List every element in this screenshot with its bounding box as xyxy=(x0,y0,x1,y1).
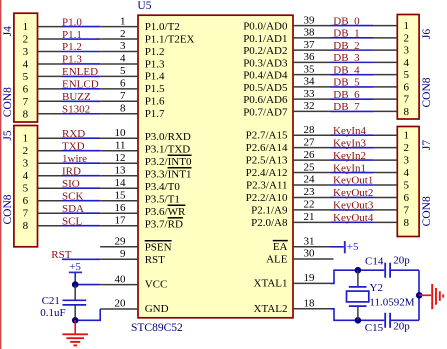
svg-text:P0.0/AD0: P0.0/AD0 xyxy=(243,21,288,33)
wire net KeyOut1 xyxy=(331,184,374,186)
net label RST xyxy=(51,249,71,261)
capacitor C15 plates xyxy=(385,313,390,328)
U5 pin 38 (P0.1/AD1) xyxy=(243,27,330,45)
net label KeyOut3 xyxy=(333,200,374,212)
wire net SCL xyxy=(62,225,100,227)
svg-text:32: 32 xyxy=(304,100,315,112)
svg-text:2: 2 xyxy=(23,145,29,157)
U5 pin 34 (P0.5/AD5) xyxy=(243,76,330,94)
ground (right, rotated) xyxy=(432,284,443,309)
svg-text:CON8: CON8 xyxy=(2,87,14,117)
wire net 1wire xyxy=(62,162,100,164)
U5 pin 27 (P2.6/A14) xyxy=(246,136,331,154)
svg-text:P2.5/A13: P2.5/A13 xyxy=(246,155,288,167)
svg-text:P1.7: P1.7 xyxy=(145,108,165,120)
svg-text:DB_4: DB_4 xyxy=(333,64,360,76)
svg-text:P0.5/AD5: P0.5/AD5 xyxy=(243,82,288,94)
net label DB_7 xyxy=(333,101,360,113)
U5 pin 5 (P1.4) xyxy=(100,65,165,83)
svg-text:16: 16 xyxy=(115,202,127,214)
svg-text:33: 33 xyxy=(304,88,316,100)
U5 pin 18 (XTAL2) xyxy=(254,298,331,315)
svg-text:1: 1 xyxy=(120,15,126,27)
svg-text:ENLED: ENLED xyxy=(62,66,98,78)
svg-text:29: 29 xyxy=(115,236,127,248)
svg-text:RST: RST xyxy=(51,249,71,261)
svg-text:P2.6/A14: P2.6/A14 xyxy=(246,142,288,154)
value CON8 (J5) xyxy=(2,194,14,224)
svg-text:11.0592M: 11.0592M xyxy=(369,297,414,309)
U5 pin 8 (P1.7) xyxy=(100,102,165,120)
svg-text:2: 2 xyxy=(404,142,410,154)
net label TXD xyxy=(62,140,85,152)
svg-text:21: 21 xyxy=(304,211,315,223)
U5 pin 2 (P1.1/T2EX) xyxy=(100,28,194,46)
svg-text:6: 6 xyxy=(23,195,29,207)
svg-text:3: 3 xyxy=(404,45,410,57)
U5 pin 12 (P3.2/INT0) xyxy=(100,152,192,168)
svg-text:STC89C52: STC89C52 xyxy=(131,322,183,334)
svg-text:20: 20 xyxy=(115,298,127,310)
svg-text:P0.4/AD4: P0.4/AD4 xyxy=(243,70,288,82)
U5 pin 31 (EA) xyxy=(273,236,331,254)
svg-text:6: 6 xyxy=(404,192,410,204)
wire XTAL2 to bottom rail xyxy=(331,309,385,321)
U5 pin 15 (P3.5/T1) xyxy=(100,189,180,205)
wire net ENLED xyxy=(62,75,100,77)
svg-text:4: 4 xyxy=(404,57,410,69)
crystal Y2 pins xyxy=(357,270,359,320)
svg-text:P1.3: P1.3 xyxy=(145,58,165,70)
svg-text:10: 10 xyxy=(115,127,127,139)
svg-text:2: 2 xyxy=(120,28,126,40)
svg-text:RST: RST xyxy=(145,254,165,266)
net label SCL xyxy=(62,215,82,227)
svg-text:7: 7 xyxy=(404,94,410,106)
wire net KeyIn2 xyxy=(331,159,374,161)
U5 pin 40 (VCC) xyxy=(100,273,167,290)
svg-text:XTAL2: XTAL2 xyxy=(254,303,288,315)
svg-text:P1.6: P1.6 xyxy=(145,96,165,108)
ground (left) xyxy=(62,320,88,345)
svg-text:RXD: RXD xyxy=(62,128,85,140)
value 20p (C14) xyxy=(393,255,410,267)
svg-text:P3.4/T0: P3.4/T0 xyxy=(145,181,181,193)
junction crystal bottom xyxy=(355,317,362,324)
junction +5/VCC/C21 xyxy=(72,281,79,288)
net label P1.2 xyxy=(62,41,82,53)
svg-text:P2.1/A9: P2.1/A9 xyxy=(251,204,288,216)
svg-text:P0.2/AD2: P0.2/AD2 xyxy=(243,45,287,57)
U5 pin 23 (P2.2/A10) xyxy=(246,186,331,204)
U5 pin 13 (P3.3/INT1) xyxy=(100,164,191,180)
svg-text:1: 1 xyxy=(23,133,29,145)
wire net DB_0 xyxy=(331,25,374,27)
svg-text:DB_3: DB_3 xyxy=(333,52,360,64)
svg-text:KeyOut3: KeyOut3 xyxy=(333,200,374,212)
svg-text:20p: 20p xyxy=(393,255,410,267)
svg-text:VCC: VCC xyxy=(145,279,168,291)
svg-text:2: 2 xyxy=(404,32,410,44)
net label IRD xyxy=(62,165,81,177)
svg-text:34: 34 xyxy=(304,76,316,88)
svg-text:CON8: CON8 xyxy=(421,77,433,107)
net label S1302 xyxy=(62,103,90,115)
svg-text:P3.6/WR: P3.6/WR xyxy=(145,206,186,218)
svg-text:8: 8 xyxy=(23,220,29,232)
svg-text:P2.2/A10: P2.2/A10 xyxy=(246,192,288,204)
svg-text:4: 4 xyxy=(404,167,410,179)
wire net SDA xyxy=(62,212,100,214)
svg-text:BUZZ: BUZZ xyxy=(62,91,91,103)
svg-text:20p: 20p xyxy=(393,320,410,332)
svg-text:S1302: S1302 xyxy=(62,103,90,115)
U5 pin 11 (P3.1/TXD) xyxy=(100,139,190,155)
svg-text:37: 37 xyxy=(304,39,316,51)
wire net KeyIn3 xyxy=(331,147,374,149)
U5 pin 29 (PSEN) xyxy=(100,236,171,254)
net label KeyOut4 xyxy=(333,212,374,224)
svg-text:P1.0: P1.0 xyxy=(62,16,82,28)
svg-text:8: 8 xyxy=(23,108,29,120)
U5 pin 14 (P3.4/T0) xyxy=(100,177,180,193)
svg-text:19: 19 xyxy=(304,272,316,284)
svg-text:IRD: IRD xyxy=(62,165,81,177)
designator Y2 xyxy=(370,282,383,294)
power +5 (EA) xyxy=(345,241,359,253)
svg-text:KeyIn4: KeyIn4 xyxy=(333,125,366,137)
wire net KeyOut4 xyxy=(331,221,374,223)
label J4 xyxy=(2,26,14,36)
svg-text:36: 36 xyxy=(304,51,316,63)
label J6 xyxy=(421,29,433,39)
svg-text:P1.2: P1.2 xyxy=(145,46,165,58)
wire net P1.3 xyxy=(62,63,100,65)
U5 pin 22 (P2.1/A9) xyxy=(251,199,330,217)
svg-text:13: 13 xyxy=(115,164,127,176)
svg-text:Y2: Y2 xyxy=(370,282,383,294)
svg-text:U5: U5 xyxy=(137,0,151,12)
svg-text:27: 27 xyxy=(304,136,316,148)
value CON8 (J7) xyxy=(421,196,433,226)
svg-text:6: 6 xyxy=(404,81,410,93)
svg-text:7: 7 xyxy=(23,208,29,220)
U5 pin 35 (P0.4/AD4) xyxy=(243,63,330,81)
wire net SCK xyxy=(62,200,100,202)
wire net DB_1 xyxy=(331,37,374,39)
svg-text:CON8: CON8 xyxy=(421,196,433,226)
svg-text:P3.1/TXD: P3.1/TXD xyxy=(145,143,191,155)
svg-text:30: 30 xyxy=(304,248,316,260)
U5 pin 19 (XTAL1) xyxy=(254,272,331,289)
U5 pin 39 (P0.0/AD0) xyxy=(243,14,330,32)
svg-text:40: 40 xyxy=(115,273,127,285)
net label P1.1 xyxy=(62,29,82,41)
svg-text:3: 3 xyxy=(23,46,29,58)
svg-text:23: 23 xyxy=(304,186,316,198)
U5 pin 36 (P0.3/AD3) xyxy=(243,51,330,69)
net label ENLCD xyxy=(62,79,99,91)
svg-text:7: 7 xyxy=(23,96,29,108)
designator U5 xyxy=(137,0,151,12)
U5 pin 17 (P3.7/RD) xyxy=(100,214,183,230)
svg-text:22: 22 xyxy=(304,199,315,211)
capacitor C14 plates xyxy=(385,263,390,278)
svg-text:5: 5 xyxy=(404,69,410,81)
wire net P1.0 xyxy=(62,26,100,28)
net label KeyIn1 xyxy=(333,162,366,174)
svg-text:J4: J4 xyxy=(2,26,14,36)
svg-text:P1.2: P1.2 xyxy=(62,41,82,53)
svg-text:38: 38 xyxy=(304,27,316,39)
svg-text:0.1uF: 0.1uF xyxy=(40,307,65,319)
U5 pin 24 (P2.3/A11) xyxy=(246,174,330,192)
U5 pin 32 (P0.7/AD7) xyxy=(243,100,330,118)
connector J4 (CON8) xyxy=(14,13,62,122)
svg-text:SCL: SCL xyxy=(62,215,82,227)
svg-text:9: 9 xyxy=(120,248,126,260)
U5 pin 33 (P0.6/AD6) xyxy=(243,88,330,106)
U5 pin 3 (P1.2) xyxy=(100,40,164,58)
U5 pin 25 (P2.4/A12) xyxy=(246,161,331,179)
value 0.1uF xyxy=(40,307,65,319)
svg-text:P0.3/AD3: P0.3/AD3 xyxy=(243,57,288,69)
wire net DB_4 xyxy=(331,74,374,76)
capacitor C21 plates xyxy=(63,300,87,305)
connector J7 (CON8) xyxy=(373,127,419,237)
svg-text:SDA: SDA xyxy=(62,203,84,215)
svg-text:8: 8 xyxy=(404,217,410,229)
svg-text:C21: C21 xyxy=(42,295,60,307)
svg-text:PSEN: PSEN xyxy=(145,241,172,253)
power +5 (VCC rail) xyxy=(69,261,82,285)
svg-text:KeyIn3: KeyIn3 xyxy=(333,137,366,149)
svg-text:P1.3: P1.3 xyxy=(62,54,82,66)
designator C21 xyxy=(42,295,60,307)
svg-text:SCK: SCK xyxy=(62,190,83,202)
svg-text:3: 3 xyxy=(23,158,29,170)
wire net DB_5 xyxy=(331,86,374,88)
net label KeyIn2 xyxy=(333,150,366,162)
svg-text:C14: C14 xyxy=(365,256,384,268)
svg-text:6: 6 xyxy=(23,83,29,95)
wire net DB_3 xyxy=(331,61,374,63)
svg-text:DB_2: DB_2 xyxy=(333,40,359,52)
net label KeyOut2 xyxy=(333,187,373,199)
wire to right ground xyxy=(419,294,431,296)
svg-text:1: 1 xyxy=(404,130,410,142)
svg-text:+5: +5 xyxy=(69,261,81,273)
svg-text:1wire: 1wire xyxy=(62,153,87,165)
svg-text:XTAL1: XTAL1 xyxy=(254,278,288,290)
wire GND xyxy=(75,309,100,320)
U5 pin 26 (P2.5/A13) xyxy=(246,149,331,167)
svg-text:7: 7 xyxy=(120,90,126,102)
wire net P1.1 xyxy=(62,38,100,40)
svg-text:25: 25 xyxy=(304,161,316,173)
net label P1.3 xyxy=(62,54,82,66)
wire net DB_6 xyxy=(331,98,374,100)
net label DB_6 xyxy=(333,89,360,101)
svg-text:15: 15 xyxy=(115,189,127,201)
svg-text:KeyOut2: KeyOut2 xyxy=(333,187,373,199)
wire net KeyIn1 xyxy=(331,172,374,174)
U5 pin 7 (P1.6) xyxy=(100,90,165,108)
U5 pin 28 (P2.7/A15) xyxy=(246,124,331,142)
svg-text:DB_6: DB_6 xyxy=(333,89,360,101)
net label SIO xyxy=(62,178,80,190)
wire net SIO xyxy=(62,187,100,189)
svg-text:DB_0: DB_0 xyxy=(333,15,360,27)
svg-text:EA: EA xyxy=(273,241,288,253)
wire net RST xyxy=(62,258,100,260)
svg-text:5: 5 xyxy=(120,65,126,77)
svg-text:1: 1 xyxy=(404,20,410,32)
U5 pin 20 (GND) xyxy=(100,298,168,315)
U5 pin 30 (ALE) xyxy=(266,248,333,266)
svg-text:5: 5 xyxy=(23,183,29,195)
net label DB_4 xyxy=(333,64,360,76)
svg-text:28: 28 xyxy=(304,124,316,136)
svg-text:P0.1/AD1: P0.1/AD1 xyxy=(243,33,287,45)
svg-text:P1.1/T2EX: P1.1/T2EX xyxy=(145,33,195,45)
svg-text:J5: J5 xyxy=(2,130,14,140)
sheet border (left edge) xyxy=(0,0,2,349)
U5 pin 16 (P3.6/WR) xyxy=(100,202,186,218)
svg-text:SIO: SIO xyxy=(62,178,80,190)
U5 pin 37 (P0.2/AD2) xyxy=(243,39,330,57)
svg-text:5: 5 xyxy=(404,180,410,192)
svg-text:35: 35 xyxy=(304,63,316,75)
svg-text:8: 8 xyxy=(120,102,126,114)
part number STC89C52 xyxy=(131,322,183,334)
wire net IRD xyxy=(62,175,100,177)
wire net KeyOut2 xyxy=(331,196,374,198)
value CON8 (J6) xyxy=(421,77,433,107)
capacitor C21 pins xyxy=(74,285,76,321)
svg-text:P1.5: P1.5 xyxy=(145,83,165,95)
U5 pin 6 (P1.5) xyxy=(100,78,165,96)
wire EA xyxy=(331,246,344,248)
wire net ENLCD xyxy=(62,88,100,90)
svg-text:DB_1: DB_1 xyxy=(333,28,359,40)
wire net KeyIn4 xyxy=(331,134,374,136)
wire net P1.2 xyxy=(62,51,100,53)
net label RXD xyxy=(62,128,85,140)
svg-text:2: 2 xyxy=(23,34,29,46)
net label ENLED xyxy=(62,66,98,78)
junction crystal top xyxy=(355,267,362,274)
svg-text:P3.3/INT1: P3.3/INT1 xyxy=(145,168,192,180)
svg-text:17: 17 xyxy=(115,214,127,226)
svg-text:P2.0/A8: P2.0/A8 xyxy=(251,217,288,229)
svg-text:14: 14 xyxy=(115,177,127,189)
svg-text:P3.5/T1: P3.5/T1 xyxy=(145,193,180,205)
svg-text:P3.2/INT0: P3.2/INT0 xyxy=(145,156,192,168)
value CON8 (J4) xyxy=(2,87,14,117)
net label KeyOut1 xyxy=(333,175,373,187)
designator C14 xyxy=(365,256,384,268)
svg-text:P0.7/AD7: P0.7/AD7 xyxy=(243,106,288,118)
svg-text:P2.7/A15: P2.7/A15 xyxy=(246,130,288,142)
svg-text:J7: J7 xyxy=(421,140,433,150)
U5 pin 4 (P1.3) xyxy=(100,53,165,71)
wire bottom rail right of C15 xyxy=(391,319,419,321)
svg-text:12: 12 xyxy=(115,152,126,164)
net label KeyIn4 xyxy=(333,125,366,137)
svg-text:TXD: TXD xyxy=(62,140,85,152)
svg-text:P2.3/A11: P2.3/A11 xyxy=(246,180,287,192)
U5 pin 1 (P1.0/T2) xyxy=(100,15,180,33)
value 11.0592M xyxy=(369,297,414,309)
svg-text:C15: C15 xyxy=(365,322,384,334)
net label P1.0 xyxy=(62,16,82,28)
svg-text:+5: +5 xyxy=(347,241,359,253)
svg-text:P0.6/AD6: P0.6/AD6 xyxy=(243,94,288,106)
label J5 xyxy=(2,130,14,140)
wire net TXD xyxy=(62,150,100,152)
U5 pin 10 (P3.0/RXD) xyxy=(100,127,191,143)
wire net BUZZ xyxy=(62,100,100,102)
svg-text:8: 8 xyxy=(404,106,410,118)
svg-text:4: 4 xyxy=(23,58,29,70)
designator C15 xyxy=(365,322,384,334)
value 20p (C15) xyxy=(393,320,410,332)
label J7 xyxy=(421,140,433,150)
svg-text:11: 11 xyxy=(115,139,126,151)
svg-text:6: 6 xyxy=(120,78,126,90)
connector J6 (CON8) xyxy=(373,15,419,120)
svg-text:5: 5 xyxy=(23,71,29,83)
junction C21/GND xyxy=(72,317,79,324)
svg-text:DB_5: DB_5 xyxy=(333,77,360,89)
svg-text:CON8: CON8 xyxy=(2,194,14,224)
svg-text:ALE: ALE xyxy=(266,254,288,266)
svg-text:4: 4 xyxy=(120,53,126,65)
U5 pin 9 (RST) xyxy=(100,248,165,266)
IC U5 STC89C52 body xyxy=(138,15,293,318)
svg-text:KeyOut4: KeyOut4 xyxy=(333,212,374,224)
svg-text:3: 3 xyxy=(404,155,410,167)
svg-text:KeyIn2: KeyIn2 xyxy=(333,150,366,162)
svg-text:KeyOut1: KeyOut1 xyxy=(333,175,373,187)
net label DB_3 xyxy=(333,52,360,64)
svg-text:26: 26 xyxy=(304,149,316,161)
svg-text:P1.0/T2: P1.0/T2 xyxy=(145,21,180,33)
junction right rail to ground xyxy=(416,292,423,299)
svg-text:P2.4/A12: P2.4/A12 xyxy=(246,167,288,179)
connector J5 (CON8) xyxy=(14,126,62,247)
net label SDA xyxy=(62,203,84,215)
svg-text:P3.0/RXD: P3.0/RXD xyxy=(145,131,191,143)
wire net S1302 xyxy=(62,113,100,115)
wire net DB_7 xyxy=(331,110,374,112)
net label DB_1 xyxy=(333,28,359,40)
svg-text:18: 18 xyxy=(304,298,316,310)
wire right vertical rail xyxy=(418,270,420,320)
svg-text:P1.1: P1.1 xyxy=(62,29,82,41)
wire net RXD xyxy=(62,137,100,139)
net label SCK xyxy=(62,190,83,202)
svg-text:J6: J6 xyxy=(421,29,433,39)
svg-text:P3.7/RD: P3.7/RD xyxy=(145,218,183,230)
net label DB_5 xyxy=(333,77,360,89)
svg-text:4: 4 xyxy=(23,170,29,182)
net label DB_0 xyxy=(333,15,360,27)
svg-text:DB_7: DB_7 xyxy=(333,101,360,113)
net label BUZZ xyxy=(62,91,91,103)
wire top rail right of C14 xyxy=(391,269,419,271)
